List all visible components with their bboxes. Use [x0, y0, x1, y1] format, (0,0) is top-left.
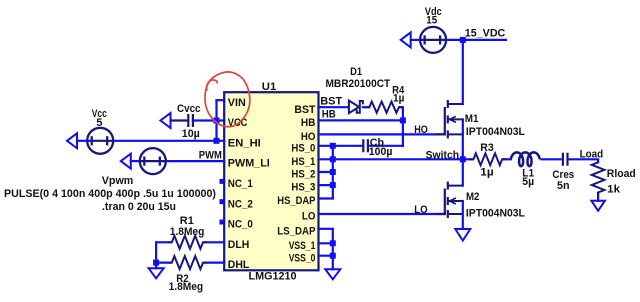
svg-text:HB: HB [322, 108, 336, 120]
svg-text:NC_1: NC_1 [228, 178, 253, 190]
svg-text:100µ: 100µ [369, 146, 393, 158]
svg-text:D1: D1 [350, 66, 362, 78]
svg-text:NC_0: NC_0 [228, 219, 253, 231]
svg-text:HS_0: HS_0 [291, 142, 315, 154]
svg-text:DHL: DHL [228, 259, 250, 271]
svg-text:MBR20100CT: MBR20100CT [326, 78, 391, 90]
svg-text:5n: 5n [557, 180, 570, 192]
svg-text:Load: Load [580, 149, 604, 161]
svg-text:VIN: VIN [228, 97, 246, 109]
svg-text:DLH: DLH [228, 239, 250, 251]
svg-text:IPT004N03L: IPT004N03L [466, 126, 525, 138]
svg-text:PWM_LI: PWM_LI [228, 158, 270, 170]
svg-text:M1: M1 [465, 113, 479, 125]
svg-text:HS_DAP: HS_DAP [277, 195, 316, 207]
svg-text:NC_2: NC_2 [228, 198, 253, 210]
svg-text:BST: BST [320, 95, 342, 107]
svg-text:15_VDC: 15_VDC [465, 28, 506, 40]
svg-text:Switch: Switch [426, 150, 460, 162]
svg-text:1µ: 1µ [480, 166, 493, 178]
svg-text:R3: R3 [480, 142, 493, 154]
svg-text:M2: M2 [466, 191, 479, 203]
svg-text:HS_2: HS_2 [291, 169, 315, 181]
svg-text:LO: LO [414, 204, 428, 216]
svg-text:HB: HB [301, 117, 316, 129]
svg-text:VSS_0: VSS_0 [289, 252, 316, 264]
svg-text:10µ: 10µ [182, 128, 200, 140]
svg-text:HS_3: HS_3 [291, 182, 315, 194]
svg-text:HO: HO [301, 131, 316, 143]
svg-text:U1: U1 [262, 81, 277, 93]
svg-text:PULSE(0 4 100n 400p 400p .5u 1: PULSE(0 4 100n 400p 400p .5u 1u 100000) [4, 188, 216, 200]
svg-text:IPT004N03L: IPT004N03L [466, 207, 525, 219]
svg-text:LMG1210: LMG1210 [249, 271, 297, 283]
svg-text:15: 15 [426, 14, 437, 26]
svg-text:HO: HO [414, 124, 428, 136]
svg-text:1.8Meg: 1.8Meg [169, 281, 204, 293]
svg-text:EN_HI: EN_HI [228, 137, 261, 149]
svg-text:5µ: 5µ [522, 176, 534, 188]
svg-text:PWM: PWM [199, 150, 222, 162]
svg-text:LO: LO [302, 211, 316, 223]
svg-text:Vpwm: Vpwm [102, 175, 134, 187]
svg-text:1k: 1k [607, 183, 621, 195]
svg-text:LS_DAP: LS_DAP [277, 225, 316, 237]
svg-text:.tran 0 20u 15u: .tran 0 20u 15u [102, 201, 176, 213]
svg-text:5: 5 [96, 117, 102, 129]
svg-text:1µ: 1µ [393, 92, 404, 104]
svg-text:Cvcc: Cvcc [177, 103, 201, 115]
svg-text:HS_1: HS_1 [291, 156, 315, 168]
svg-text:BST: BST [294, 104, 315, 116]
svg-text:Rload: Rload [607, 168, 636, 180]
svg-text:VSS_1: VSS_1 [289, 240, 316, 252]
svg-text:1.8Meg: 1.8Meg [170, 226, 205, 238]
